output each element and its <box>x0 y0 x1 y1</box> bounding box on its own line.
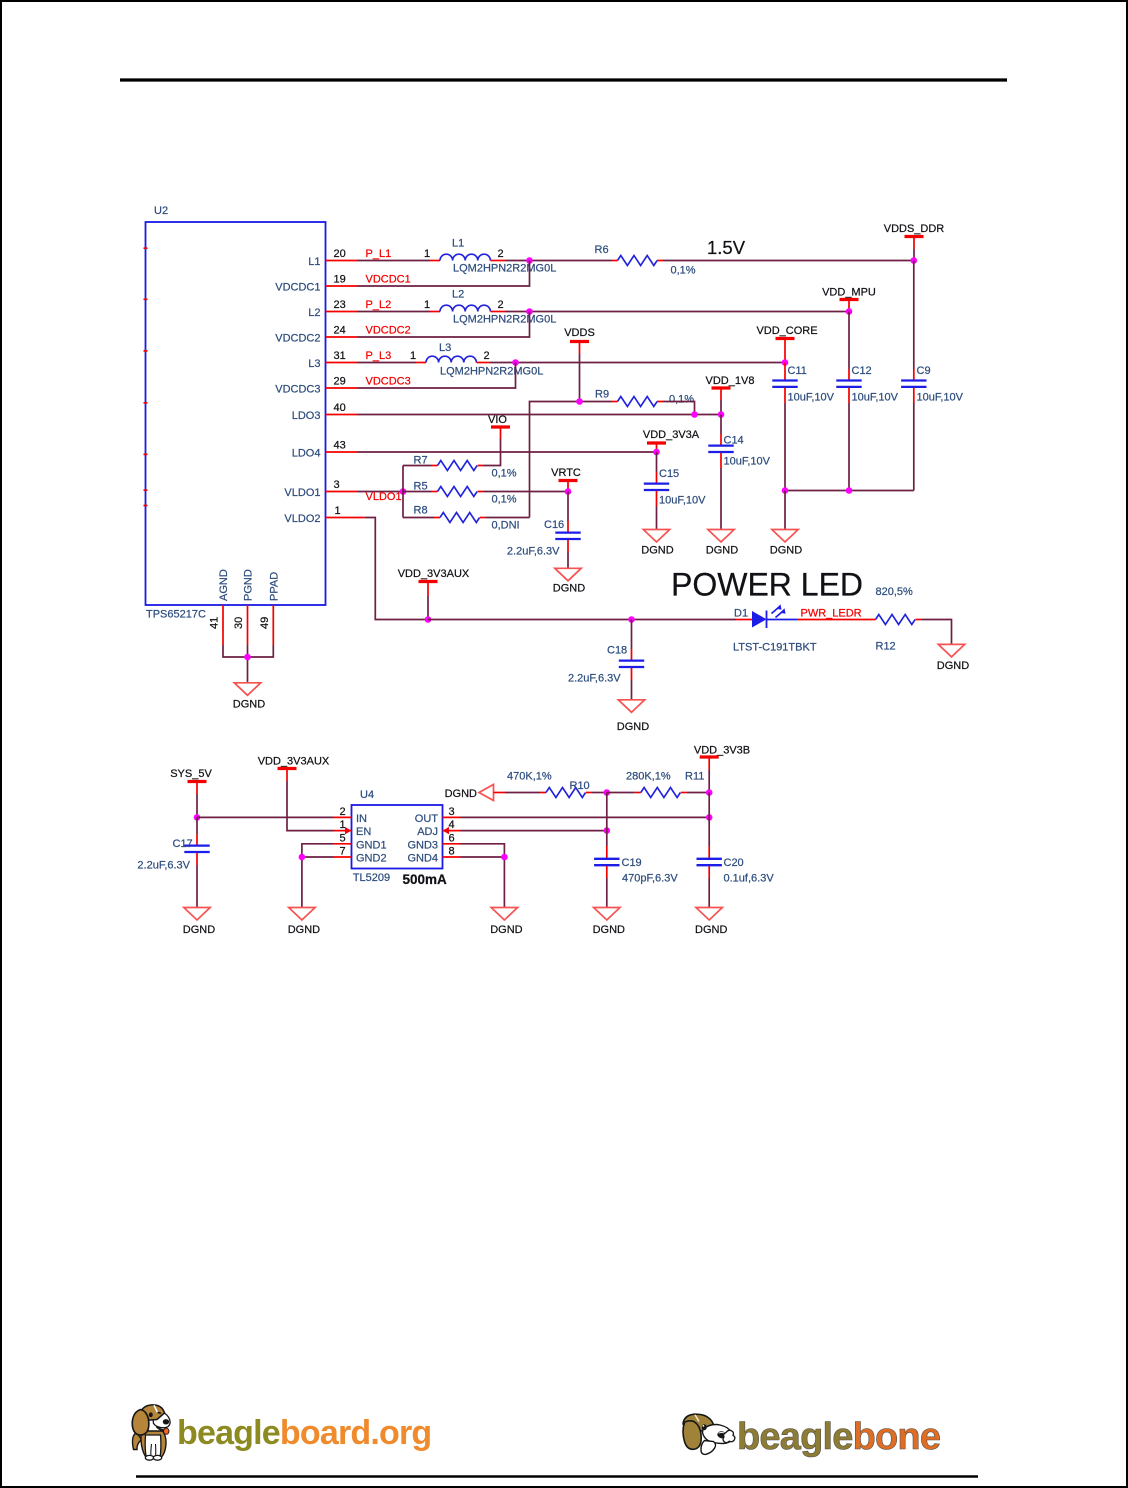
label 1.5V <box>707 237 746 258</box>
pin 40 LDO3 <box>326 402 358 415</box>
wire VDCDC3 feedback <box>357 363 516 389</box>
svg-text:470K,1%: 470K,1% <box>507 771 552 783</box>
resistor R5 <box>403 481 517 506</box>
wire GND1/GND2 to DGND <box>302 844 334 908</box>
svg-text:PGND: PGND <box>243 569 255 601</box>
svg-text:0,1%: 0,1% <box>492 468 517 480</box>
svg-text:VDCDC3: VDCDC3 <box>366 376 411 388</box>
wire L1 out <box>505 260 612 262</box>
svg-text:VDD_MPU: VDD_MPU <box>822 287 876 299</box>
junction VDD_3V3A <box>653 449 660 456</box>
svg-text:VLDO2: VLDO2 <box>284 513 320 525</box>
wire C14 to DGND <box>720 468 722 530</box>
net label VDCDC1 <box>366 274 411 286</box>
power VIO <box>488 414 510 439</box>
svg-text:L3: L3 <box>439 342 451 354</box>
resistor R7 <box>403 455 517 480</box>
junction R9/LDO3 <box>691 411 698 418</box>
svg-text:DGND: DGND <box>617 721 649 733</box>
junction VDD_3V3B <box>706 789 713 796</box>
capacitor C11 <box>772 363 834 404</box>
wire OUT row <box>461 816 710 818</box>
wire U2 ground rail <box>223 645 273 683</box>
junction VDD_3V3AUX <box>425 616 432 623</box>
pin 8 GND4 <box>443 846 461 858</box>
svg-text:43: 43 <box>334 440 346 452</box>
svg-text:10uF,10V: 10uF,10V <box>788 392 835 404</box>
gnd rail C11-C12-C9 <box>785 490 914 492</box>
wire R8 to R9 riser <box>530 402 612 518</box>
svg-text:DGND: DGND <box>770 545 802 557</box>
svg-text:280K,1%: 280K,1% <box>626 771 671 783</box>
ground DGND under GND2 <box>288 908 320 937</box>
wire L3 out to VDD_CORE <box>490 362 785 364</box>
junction SYS_5V <box>194 814 201 821</box>
svg-text:VDD_1V8: VDD_1V8 <box>706 375 755 387</box>
resistor R9 <box>595 389 694 407</box>
svg-text:0,DNI: 0,DNI <box>492 520 520 532</box>
wire R12 to DGND <box>922 620 952 645</box>
power VDDS <box>564 327 595 402</box>
LED D1 LTST-C191TBKT <box>733 604 817 653</box>
wire R10 to junction <box>592 792 607 794</box>
svg-text:49: 49 <box>259 617 271 629</box>
svg-text:23: 23 <box>334 299 346 311</box>
svg-text:40: 40 <box>334 402 346 414</box>
pin 3 VLDO1 <box>326 479 358 492</box>
svg-text:VDD_3V3A: VDD_3V3A <box>643 429 700 441</box>
svg-text:470pF,6.3V: 470pF,6.3V <box>622 873 678 885</box>
wire R7 out to VIO <box>484 439 501 466</box>
capacitor C18 <box>568 620 644 685</box>
wire VLDO1 <box>357 491 403 493</box>
inductor L1 <box>424 238 556 275</box>
svg-text:U4: U4 <box>360 789 374 801</box>
wire C16 to DGND <box>567 552 569 568</box>
svg-text:R6: R6 <box>595 244 609 256</box>
svg-text:7: 7 <box>340 846 346 858</box>
pin 29 VDCDC3 <box>326 376 358 389</box>
capacitor C14 <box>708 434 770 468</box>
svg-text:24: 24 <box>334 325 346 337</box>
svg-text:20: 20 <box>334 248 346 260</box>
unconnected left pin stubs of U2 <box>144 248 148 505</box>
svg-text:DGND: DGND <box>641 545 673 557</box>
ground DGND under C15 <box>641 530 673 557</box>
svg-text:1: 1 <box>424 299 430 311</box>
svg-text:5: 5 <box>340 832 346 844</box>
inductor L2 <box>424 289 556 326</box>
inductor L3 <box>410 342 543 378</box>
svg-text:L1: L1 <box>452 238 464 250</box>
net label VDCDC3 <box>366 376 411 388</box>
power VDD_3V3B <box>694 745 750 793</box>
wire VDDS_DDR down to C9 <box>913 261 915 370</box>
power VDDS_DDR <box>884 223 945 261</box>
power VDD_1V8 <box>706 375 755 415</box>
svg-text:VDD_3V3AUX: VDD_3V3AUX <box>258 756 330 768</box>
capacitor C17 <box>137 817 209 871</box>
svg-text:DGND: DGND <box>937 660 969 672</box>
wire P_L3 <box>357 362 416 364</box>
svg-text:EN: EN <box>356 826 371 838</box>
net label P_L3 <box>366 350 392 362</box>
svg-text:DGND: DGND <box>288 924 320 936</box>
wire VDD_1V8 down to C14 <box>720 415 722 435</box>
svg-text:VLDO1: VLDO1 <box>284 487 320 499</box>
svg-text:4: 4 <box>449 819 455 831</box>
wire LDO4 / VDD_3V3A <box>357 451 657 453</box>
pin 1 VLDO2 <box>326 505 365 518</box>
svg-text:R5: R5 <box>414 481 428 493</box>
svg-text:POWER LED: POWER LED <box>671 567 863 603</box>
wire C9 to gnd rail <box>913 403 915 491</box>
wire C11 to gnd rail <box>784 403 786 491</box>
wire R8 out <box>486 517 530 519</box>
svg-text:3: 3 <box>449 806 455 818</box>
svg-text:VDDS_DDR: VDDS_DDR <box>884 223 945 235</box>
pin 7 GND2 <box>334 846 352 858</box>
logo beagleboard.org <box>132 1405 431 1460</box>
svg-text:0,1%: 0,1% <box>669 394 694 406</box>
ground DGND under C20 <box>695 908 727 937</box>
junction R10/R11/C19 <box>604 789 611 796</box>
junction VLDO1 bus <box>400 488 407 495</box>
svg-text:C12: C12 <box>852 365 872 377</box>
svg-text:2.2uF,6.3V: 2.2uF,6.3V <box>568 673 621 685</box>
wire R5 out to VRTC <box>484 491 569 493</box>
junction GND2 <box>299 854 306 861</box>
svg-text:10uF,10V: 10uF,10V <box>724 456 771 468</box>
svg-text:DGND: DGND <box>553 583 585 595</box>
svg-text:DGND: DGND <box>233 699 265 711</box>
svg-text:D1: D1 <box>734 608 748 620</box>
resistor R8 <box>403 505 520 532</box>
ground DGND under U2 <box>233 683 265 711</box>
svg-text:10uF,10V: 10uF,10V <box>659 495 706 507</box>
svg-text:VLDO1: VLDO1 <box>366 491 402 503</box>
pin 49 PPAD <box>259 572 281 645</box>
svg-text:10uF,10V: 10uF,10V <box>917 392 964 404</box>
svg-text:2: 2 <box>484 350 490 362</box>
svg-text:41: 41 <box>209 617 221 629</box>
pin 23 L2 <box>326 299 358 312</box>
power VDD_3V3AUX (EN) <box>258 756 334 831</box>
svg-text:0,1%: 0,1% <box>492 494 517 506</box>
wire P_L2 <box>357 311 430 313</box>
svg-text:10uF,10V: 10uF,10V <box>852 392 899 404</box>
svg-text:R7: R7 <box>414 455 428 467</box>
pin 30 PGND <box>233 569 255 645</box>
svg-text:R9: R9 <box>595 389 609 401</box>
wire VDCDC1 feedback <box>357 261 530 287</box>
svg-text:SYS_5V: SYS_5V <box>170 768 212 780</box>
svg-text:C17: C17 <box>173 838 193 850</box>
resistor R12 <box>876 586 922 653</box>
svg-text:R10: R10 <box>570 780 590 792</box>
svg-text:C11: C11 <box>788 365 807 377</box>
junction VDD_MPU <box>846 308 853 315</box>
wire C17 to DGND <box>196 865 198 908</box>
svg-text:AGND: AGND <box>218 569 230 601</box>
logo beaglebone <box>683 1414 940 1458</box>
wire LDO3 / VDD_1V8 <box>357 414 721 416</box>
junction C18 <box>628 616 635 623</box>
svg-text:1.5V: 1.5V <box>707 237 746 258</box>
ground DGND under C17 <box>183 908 215 937</box>
junction GND4 <box>501 854 508 861</box>
wire flag to R10 <box>505 792 540 794</box>
svg-text:VDCDC2: VDCDC2 <box>366 325 411 337</box>
title POWER LED <box>671 567 863 603</box>
wire VDCDC2 feedback <box>357 312 530 338</box>
capacitor C15 <box>644 452 706 507</box>
pin 1 EN <box>334 819 352 834</box>
svg-text:DGND: DGND <box>593 924 625 936</box>
wire VLDO2 down to LED row <box>365 518 428 620</box>
pin 2 IN <box>334 806 352 818</box>
svg-text:LQM2HPN2R2MG0L: LQM2HPN2R2MG0L <box>440 366 543 378</box>
svg-text:IN: IN <box>356 813 367 825</box>
wire PWR_LEDR <box>797 619 876 621</box>
wire C19 riser <box>606 793 608 847</box>
svg-text:C18: C18 <box>607 645 627 657</box>
svg-text:2.2uF,6.3V: 2.2uF,6.3V <box>137 860 190 872</box>
svg-text:P_L2: P_L2 <box>366 299 392 311</box>
svg-text:L1: L1 <box>308 256 320 268</box>
svg-text:C14: C14 <box>724 435 744 447</box>
svg-text:VDCDC2: VDCDC2 <box>275 333 320 345</box>
svg-text:TPS65217C: TPS65217C <box>146 609 206 621</box>
net label P_L2 <box>366 299 392 311</box>
junction rail C12 <box>846 487 853 494</box>
svg-text:VDCDC3: VDCDC3 <box>275 384 320 396</box>
junction VDD_CORE <box>782 359 789 366</box>
capacitor C20 <box>697 846 775 885</box>
svg-text:C16: C16 <box>544 519 564 531</box>
svg-text:C20: C20 <box>724 857 744 869</box>
wire 1.5V net to VDDS_DDR <box>663 260 914 262</box>
svg-text:VRTC: VRTC <box>551 467 581 479</box>
svg-text:LDO3: LDO3 <box>292 410 321 422</box>
junction ADJ <box>604 827 611 834</box>
svg-text:C19: C19 <box>622 857 642 869</box>
IC U4 TL5209 <box>352 789 448 887</box>
wire VDD_3V3B down through OUT to C20 <box>708 793 710 847</box>
svg-text:LDO4: LDO4 <box>292 448 321 460</box>
capacitor C12 <box>836 365 898 404</box>
wire R7-R8 left bus <box>402 466 404 518</box>
svg-text:DGND: DGND <box>183 924 215 936</box>
power VDD_3V3AUX (LED row) <box>398 568 470 620</box>
junction U2 gnd <box>244 654 251 661</box>
svg-text:1: 1 <box>335 505 341 517</box>
svg-text:DGND: DGND <box>445 788 477 800</box>
svg-text:C15: C15 <box>659 468 679 480</box>
svg-text:PPAD: PPAD <box>268 572 280 601</box>
wire L2 out to VDD_MPU <box>505 311 849 313</box>
wire VDD_MPU down to C12 <box>848 312 850 370</box>
ground DGND under C18 <box>617 700 649 733</box>
pin 3 OUT <box>443 806 461 818</box>
junction L3/VDCDC3 <box>512 359 519 366</box>
svg-text:500mA: 500mA <box>403 872 448 887</box>
ground DGND under C16 <box>553 568 585 594</box>
svg-text:30: 30 <box>233 617 245 629</box>
capacitor C9 <box>901 365 964 404</box>
ground DGND under C11 <box>770 530 802 557</box>
net label VLDO1 <box>366 491 402 503</box>
svg-text:VDD_CORE: VDD_CORE <box>756 325 817 337</box>
svg-text:DGND: DGND <box>706 545 738 557</box>
wire C20 to DGND <box>708 878 710 908</box>
svg-text:TL5209: TL5209 <box>353 872 390 884</box>
power VDD_CORE <box>756 325 817 363</box>
svg-text:beaglebone: beaglebone <box>737 1416 940 1458</box>
ground DGND under GND4 <box>490 908 522 937</box>
svg-text:PWR_LEDR: PWR_LEDR <box>801 608 862 620</box>
svg-text:1: 1 <box>410 350 416 362</box>
resistor R11 280K <box>607 771 705 798</box>
svg-text:LQM2HPN2R2MG0L: LQM2HPN2R2MG0L <box>453 263 556 275</box>
svg-text:GND4: GND4 <box>407 853 438 865</box>
junction VDD_1V8 <box>718 411 725 418</box>
wire LED row <box>428 619 736 621</box>
svg-text:3: 3 <box>334 479 340 491</box>
svg-text:VIO: VIO <box>488 414 507 426</box>
pin 31 L3 <box>326 350 358 363</box>
junction VDDS_DDR <box>911 257 918 264</box>
wire GND3/GND4 to DGND <box>461 844 505 908</box>
svg-text:beagleboard.org: beagleboard.org <box>177 1414 431 1452</box>
svg-text:8: 8 <box>449 846 455 858</box>
wire C15 to DGND <box>656 506 658 530</box>
ground DGND under C19 <box>593 908 625 937</box>
svg-text:DGND: DGND <box>695 924 727 936</box>
svg-text:6: 6 <box>449 832 455 844</box>
svg-text:2: 2 <box>340 806 346 818</box>
svg-text:R12: R12 <box>876 641 896 653</box>
junction L1/VDCDC1 <box>526 257 533 264</box>
svg-text:GND3: GND3 <box>407 839 438 851</box>
wire C12 to gnd rail <box>848 403 850 491</box>
svg-text:1: 1 <box>424 248 430 260</box>
svg-text:2.2uF,6.3V: 2.2uF,6.3V <box>507 546 560 558</box>
wire ADJ row <box>461 830 607 832</box>
junction OUT <box>706 814 713 821</box>
svg-text:LQM2HPN2R2MG0L: LQM2HPN2R2MG0L <box>453 314 556 326</box>
svg-text:LTST-C191TBKT: LTST-C191TBKT <box>733 642 817 654</box>
IC U2 TPS65217C <box>146 205 326 621</box>
svg-text:VDD_3V3B: VDD_3V3B <box>694 745 750 757</box>
svg-text:GND1: GND1 <box>356 839 387 851</box>
net label P_L1 <box>366 248 392 260</box>
power VRTC <box>551 467 581 492</box>
pin 19 VDCDC1 <box>326 274 358 287</box>
pin 4 ADJ <box>443 819 461 834</box>
wire R9 out down to LDO3 <box>663 402 695 415</box>
pin 41 AGND <box>209 569 231 645</box>
wire C18 to DGND <box>631 680 633 700</box>
resistor R10 470K <box>507 771 592 798</box>
svg-text:R11: R11 <box>685 771 704 783</box>
svg-text:L3: L3 <box>308 358 320 370</box>
pin 43 LDO4 <box>326 440 358 453</box>
svg-text:0,1%: 0,1% <box>671 265 696 277</box>
wire P_L1 <box>357 260 430 262</box>
svg-text:2: 2 <box>498 248 504 260</box>
pin 24 VDCDC2 <box>326 325 358 338</box>
capacitor C16 <box>507 492 581 558</box>
resistor R6 <box>595 244 696 277</box>
svg-text:29: 29 <box>334 376 346 388</box>
svg-text:31: 31 <box>334 350 346 362</box>
pin 5 GND1 <box>334 832 352 844</box>
power VDD_MPU <box>822 287 876 312</box>
wire rail to DGND <box>784 491 786 530</box>
svg-text:VDCDC1: VDCDC1 <box>366 274 411 286</box>
power VDD_3V3A <box>643 429 700 452</box>
svg-text:P_L1: P_L1 <box>366 248 392 260</box>
ground DGND under C14 <box>706 530 738 557</box>
svg-text:L2: L2 <box>308 307 320 319</box>
svg-text:VDDS: VDDS <box>564 327 595 339</box>
svg-text:P_L3: P_L3 <box>366 350 392 362</box>
svg-text:GND2: GND2 <box>356 853 387 865</box>
svg-text:R8: R8 <box>414 505 428 517</box>
svg-text:L2: L2 <box>452 289 464 301</box>
junction VRTC <box>565 488 572 495</box>
junction rail C11 <box>782 487 789 494</box>
capacitor C19 <box>594 846 678 885</box>
junction L2/VDCDC2 <box>526 308 533 315</box>
svg-text:ADJ: ADJ <box>417 826 438 838</box>
ground DGND after R12 <box>937 644 969 672</box>
svg-text:1: 1 <box>340 819 346 831</box>
svg-text:19: 19 <box>334 274 346 286</box>
pin 6 GND3 <box>443 832 461 844</box>
svg-text:2: 2 <box>498 299 504 311</box>
wire C19 to DGND <box>606 878 608 908</box>
svg-text:C9: C9 <box>917 365 931 377</box>
svg-text:820,5%: 820,5% <box>876 586 914 598</box>
svg-text:OUT: OUT <box>415 813 439 825</box>
junction VDDS <box>576 398 583 405</box>
net label VDCDC2 <box>366 325 411 337</box>
svg-text:0.1uf,6.3V: 0.1uf,6.3V <box>724 873 775 885</box>
net label PWR_LEDR <box>801 608 862 620</box>
wire IN row <box>197 816 334 818</box>
pin 20 L1 <box>326 248 358 261</box>
svg-text:VDCDC1: VDCDC1 <box>275 282 320 294</box>
ground flag DGND left <box>445 785 505 801</box>
svg-text:DGND: DGND <box>490 924 522 936</box>
svg-text:U2: U2 <box>154 205 168 217</box>
wire R11 to junction <box>687 792 709 794</box>
svg-text:VDD_3V3AUX: VDD_3V3AUX <box>398 568 470 580</box>
power SYS_5V <box>170 768 212 817</box>
